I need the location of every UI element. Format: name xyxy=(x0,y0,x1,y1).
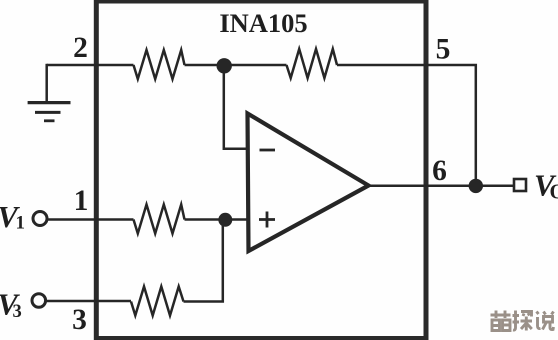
svg-text:2: 2 xyxy=(73,32,88,64)
svg-text:3: 3 xyxy=(13,302,22,322)
svg-text:INA105: INA105 xyxy=(219,8,307,38)
svg-text:1: 1 xyxy=(16,213,26,234)
svg-text:1: 1 xyxy=(74,185,89,217)
svg-text:3: 3 xyxy=(72,304,87,336)
svg-text:O: O xyxy=(550,180,558,204)
svg-text:5: 5 xyxy=(436,34,451,66)
svg-text:6: 6 xyxy=(432,155,447,187)
